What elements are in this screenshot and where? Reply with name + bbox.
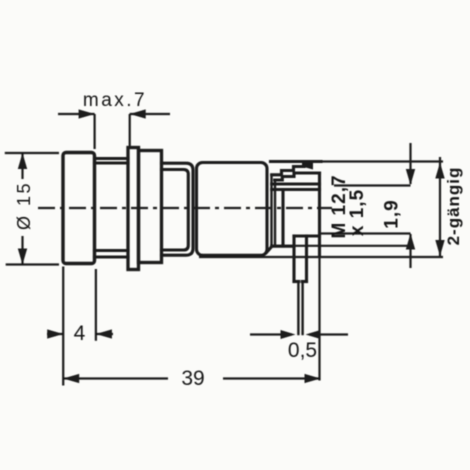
extension line B from knob right (95, 269, 97, 341)
rear contact tab top edge (271, 160, 322, 163)
dia15 top extension line (5, 152, 59, 154)
dim4 line left segment (47, 333, 63, 335)
svg-text:Ø 15: Ø 15 (14, 181, 34, 230)
dim4 line right segment (96, 333, 113, 335)
dim05 left arrowhead (281, 330, 296, 339)
dim39 line right segment (223, 377, 321, 379)
pin left edge (292, 236, 295, 282)
svg-text:39: 39 (181, 367, 204, 390)
insulator corner extension line (320, 232, 411, 234)
thread OD top extension line (321, 160, 443, 162)
dia15 dimension line upper segment (21, 153, 23, 179)
solder pin left edge (297, 282, 299, 335)
dim05 line left segment (250, 333, 292, 335)
pin left shoulder (294, 280, 299, 283)
pin top edge (294, 234, 320, 237)
extension line A from knob left (62, 267, 64, 386)
dia15 bottom arrowhead (18, 249, 27, 265)
pin right edge (305, 236, 308, 282)
dim39 right arrowhead (305, 374, 321, 383)
thread root line (162, 170, 189, 251)
flat tab lower line (272, 188, 320, 191)
max7 dimension line left segment (58, 113, 95, 115)
dim19 top arrowhead (406, 169, 415, 185)
svg-text:4: 4 (74, 322, 86, 345)
step extension line (272, 245, 411, 247)
nut (139, 151, 162, 263)
main body (197, 163, 268, 256)
dim05 line right segment (309, 333, 348, 335)
insulator right edge (318, 173, 321, 257)
svg-text:0,5: 0,5 (288, 339, 317, 362)
insulator edge extension to dim39 (318, 257, 320, 381)
flat tab upper line (272, 182, 320, 185)
dim4 left arrowhead (47, 329, 63, 338)
max7 right extension line (129, 114, 131, 146)
step top line (272, 245, 294, 248)
max7 dimension line right segment (130, 113, 170, 115)
tab bottom extension line (334, 184, 411, 186)
threaded bushing outline (162, 163, 194, 255)
neck bottom inner line (95, 249, 129, 252)
svg-text:2-gängig: 2-gängig (444, 167, 463, 246)
contact left leg inner (274, 180, 276, 246)
dia15 bottom extension line (6, 263, 59, 265)
neck top outer line (95, 157, 129, 160)
solder pin right edge (301, 282, 303, 335)
centerline (38, 207, 332, 209)
max7 left arrowhead (79, 109, 95, 118)
thread dim line (439, 157, 441, 257)
spring zigzag upper line (272, 163, 304, 175)
contact left leg outer (270, 175, 272, 246)
thread dim top arrowhead (435, 163, 444, 179)
svg-text:max.7: max.7 (83, 90, 147, 111)
neck top inner line (95, 161, 129, 164)
dim19 bottom arrowhead (406, 234, 415, 250)
dim19 line upper segment (409, 143, 411, 184)
dim39 line left segment (63, 377, 168, 379)
dim39 left arrowhead (63, 374, 79, 383)
knurled knob (63, 153, 95, 264)
washer (128, 148, 139, 270)
max7 left extension line (93, 114, 95, 149)
thread OD bottom extension line (199, 256, 443, 258)
max7 right arrowhead (130, 109, 146, 118)
insulator inner edge (281, 190, 284, 246)
thread dim bottom arrowhead (435, 240, 444, 256)
neck bottom outer line (95, 255, 129, 258)
dia15 top arrowhead (18, 153, 27, 169)
dim05 right arrowhead (306, 330, 321, 339)
svg-text:1,9: 1,9 (382, 199, 403, 228)
dim19 line lower segment (409, 234, 411, 268)
svg-text:x 1,5: x 1,5 (347, 189, 368, 236)
spring zigzag lower line (275, 173, 320, 180)
dim4 right arrowhead (96, 329, 112, 338)
pin right shoulder (302, 280, 306, 283)
spring bend blob (302, 161, 313, 170)
dia15 dimension line lower segment (21, 236, 23, 265)
step diagonal (267, 247, 272, 253)
